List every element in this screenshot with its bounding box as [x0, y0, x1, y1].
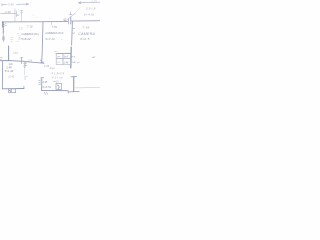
- svg-text:7.10: 7.10: [27, 25, 33, 29]
- svg-text:1.45: 1.45: [64, 61, 69, 64]
- svg-text:~: ~: [61, 38, 63, 42]
- svg-text:(× 4.0): (× 4.0): [84, 13, 94, 17]
- svg-text:5 1.5×7.9: 5 1.5×7.9: [52, 73, 65, 76]
- svg-text:2.4: 2.4: [27, 59, 32, 63]
- svg-text:7.99: 7.99: [52, 25, 58, 29]
- svg-text:2.98: 2.98: [4, 10, 11, 14]
- svg-text:2.5: 2.5: [18, 27, 23, 31]
- svg-text:4.2 t nd: 4.2 t nd: [52, 77, 63, 80]
- svg-text:5×8.22: 5×8.22: [21, 37, 31, 41]
- svg-text:5.4R: 5.4R: [6, 65, 12, 69]
- svg-text:(2.40: (2.40: [8, 76, 14, 79]
- svg-text:7.98: 7.98: [83, 25, 90, 29]
- svg-text:4=10: 4=10: [53, 80, 59, 83]
- svg-text:5×7.13: 5×7.13: [45, 37, 55, 41]
- svg-text:cAMERA 6×4: cAMERA 6×4: [45, 31, 63, 35]
- svg-text:Argo: Argo: [49, 67, 56, 70]
- svg-text:5×1.4Z: 5×1.4Z: [5, 69, 14, 73]
- svg-text:2.45: 2.45: [17, 34, 20, 40]
- svg-text:2.1 0: 2.1 0: [91, 0, 98, 3]
- svg-text:CAMERA: CAMERA: [78, 32, 95, 36]
- svg-text:cAMERA 64 j: cAMERA 64 j: [21, 32, 39, 36]
- svg-text:8×6.5: 8×6.5: [80, 37, 89, 41]
- svg-text:(1×4.52: (1×4.52: [42, 85, 52, 89]
- svg-text:1.5×t: 1.5×t: [13, 52, 19, 55]
- svg-text:A4B: A4B: [42, 81, 48, 84]
- svg-text:2.0 t.9: 2.0 t.9: [85, 6, 96, 10]
- svg-text:7.99: 7.99: [8, 2, 14, 6]
